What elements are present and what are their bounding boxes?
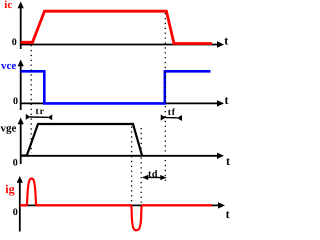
vge x-axis [20,155,219,157]
ic waveform [21,11,212,43]
vge y-axis [20,123,22,164]
annotation td (turn-off delay) [142,169,166,180]
ig y-axis arrowhead [17,176,23,183]
dotted guide line at vge fall start (x=131.6) [131,127,133,205]
svg-text:0: 0 [13,158,18,169]
ic y-axis arrowhead [18,2,24,9]
svg-text:t: t [224,33,228,47]
svg-text:tf: tf [168,108,176,118]
svg-text:td: td [148,169,158,180]
ig baseline red segment middle [36,204,131,206]
vce y-axis arrowhead [18,60,24,67]
svg-text:0: 0 [13,207,18,218]
ic x-axis [20,44,219,46]
vce x-axis arrowhead [217,100,224,106]
svg-text:ic: ic [4,0,12,11]
annotation tr (rise time) [26,107,52,121]
svg-text:ig: ig [5,182,14,196]
ic x-axis arrowhead [217,41,224,47]
vge x-axis arrowhead [217,153,224,159]
ic y-axis [20,6,22,49]
dotted guide line at vge fall end (x=141.2) [140,128,142,204]
ig x-axis arrowhead [218,202,225,208]
annotation tf (fall time) [161,108,182,121]
svg-text:vce: vce [1,60,16,72]
svg-text:vge: vge [1,123,17,135]
vge y-axis arrowhead [18,118,24,125]
vce waveform [21,71,211,103]
svg-text:t: t [226,207,230,221]
ig positive gate-current spike [27,179,36,206]
dotted guide line at turn-on (x=31) [30,45,32,153]
ig baseline red segment right [142,204,212,206]
svg-text:t: t [225,93,229,107]
vce y-axis [20,64,22,110]
svg-text:0: 0 [13,96,18,107]
dotted guide line at turn-off start (x=165) [164,13,166,183]
ig negative gate-current spike [131,206,141,231]
ig y-axis [19,182,21,232]
vce x-axis [20,102,219,104]
svg-text:tr: tr [36,107,45,117]
vge waveform [22,124,142,156]
svg-text:t: t [226,154,230,168]
svg-text:0: 0 [12,37,17,48]
ig baseline red segment left [20,204,27,206]
ig x-axis [20,204,220,206]
